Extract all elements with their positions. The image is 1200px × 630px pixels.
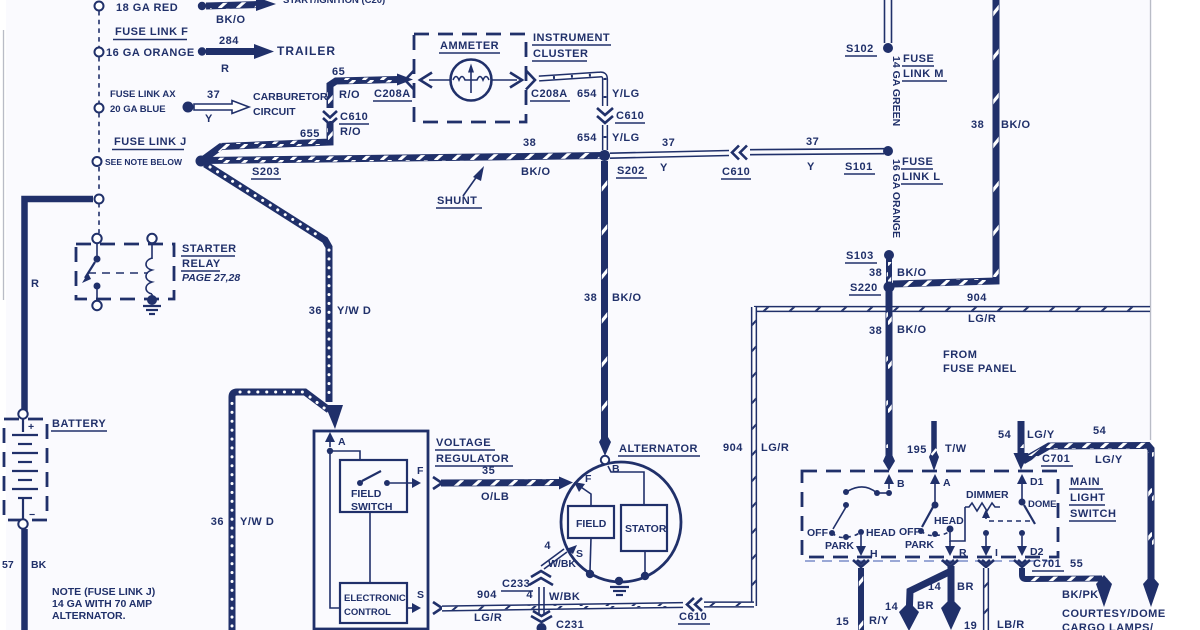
svg-text:65: 65 [332, 66, 345, 78]
wire: stator to case [644, 551, 646, 573]
alternator case circle [561, 462, 681, 582]
label S102 [845, 43, 877, 56]
label S220 [849, 282, 881, 295]
scan edge line left [3, 30, 5, 300]
node: R wire tap on bus [95, 195, 104, 204]
svg-text:FROM: FROM [943, 349, 977, 361]
svg-text:54: 54 [1093, 425, 1107, 437]
svg-text:Y/LG: Y/LG [612, 132, 640, 144]
node: stator case dot [641, 572, 649, 580]
switch section D: dome contact [1017, 489, 1057, 558]
wire: 904 LG/R horizontal upper (thin pair with ticks) [754, 306, 1150, 312]
svg-text:S: S [576, 548, 583, 560]
wire: 14 BR left fork (solid thick arrow) [899, 572, 949, 630]
connector C610 (Y) [732, 146, 747, 160]
node: field case dot [586, 570, 594, 578]
wire: 38 BK/O S103 to S220 (hatched) [886, 259, 892, 283]
node: splice to start/ignition [198, 2, 206, 10]
svg-text:195: 195 [907, 444, 927, 456]
wire: 904 LG/R vertical (thin pair with ticks) [751, 307, 757, 606]
wire: 4 W/BK from S terminal (thin pair) [541, 549, 567, 569]
node: 16 GA ORANGE terminal [95, 48, 104, 57]
node: fuse link bus (dashed) [98, 11, 100, 233]
svg-text:BK: BK [31, 559, 47, 571]
svg-text:35: 35 [482, 465, 495, 477]
ammeter left lead + connector [405, 71, 450, 90]
svg-text:BK/O: BK/O [612, 292, 642, 304]
label FROM FUSE PANEL [943, 349, 1017, 375]
svg-text:SHUNT: SHUNT [437, 195, 477, 207]
label SHUNT with arrow [436, 166, 484, 208]
svg-text:Y: Y [205, 113, 213, 125]
wire: 284 R to trailer (solid arrow) [206, 44, 274, 59]
scan edge line right [1150, 0, 1152, 440]
svg-text:S101: S101 [845, 161, 873, 173]
label C701 [1041, 453, 1073, 466]
svg-text:R: R [959, 547, 967, 559]
svg-text:37: 37 [207, 89, 220, 101]
wire: 35 O/LB to alternator F (hatched) [441, 477, 573, 490]
svg-text:37: 37 [662, 137, 675, 149]
svg-text:54: 54 [998, 429, 1012, 441]
node S202 [599, 150, 610, 161]
svg-text:INSTRUMENT: INSTRUMENT [533, 32, 610, 44]
wire: 38 BK/O shunt run S203 to S202 (hatched) [204, 156, 604, 161]
wire: 38 BK/O S220 down to main light switch B (hatched) [883, 291, 895, 471]
relay switch contacts [82, 243, 101, 301]
svg-text:4: 4 [544, 540, 551, 552]
connector C231 [531, 611, 552, 622]
svg-text:4: 4 [526, 589, 533, 601]
svg-text:LG/Y: LG/Y [1027, 429, 1055, 441]
svg-text:BK/O: BK/O [897, 267, 927, 279]
label ELECTRONIC CONTROL [344, 593, 406, 618]
svg-text:38: 38 [523, 137, 536, 149]
note text [52, 586, 155, 622]
svg-text:B: B [897, 478, 905, 490]
svg-text:14 GA WITH 70 AMP: 14 GA WITH 70 AMP [52, 598, 152, 610]
node: splice to trailer [198, 47, 206, 55]
node: relay switch bottom terminal [92, 301, 101, 310]
label C701 55 [1032, 558, 1083, 571]
svg-text:NOTE (FUSE LINK J): NOTE (FUSE LINK J) [52, 586, 155, 598]
connector C701 under D2 pin [1014, 560, 1030, 567]
wire: B internal lead to stator [608, 466, 644, 506]
svg-text:S: S [417, 589, 424, 601]
svg-text:654: 654 [577, 132, 597, 144]
svg-text:15: 15 [836, 616, 849, 628]
svg-text:S203: S203 [252, 166, 280, 178]
wire: 654 Y/LG from cluster to S202 (thin pair with ticks) [539, 74, 605, 106]
wire: 65 R/O up to ammeter (hatched) [330, 74, 413, 109]
svg-text:AMMETER: AMMETER [440, 40, 499, 52]
wire: 36 Y/W D dotted lower branch [232, 392, 329, 630]
label C233 [501, 578, 533, 591]
node S203 junction [196, 156, 207, 167]
svg-text:CLUSTER: CLUSTER [533, 48, 588, 60]
wire: BK battery negative (thick) [21, 529, 28, 630]
wire: 195 T/W to switch A (solid) [929, 421, 939, 471]
pin F (arrow) [574, 473, 592, 506]
label FUSE LINK J [112, 136, 187, 150]
battery BATTERY [4, 409, 47, 528]
wire: pair up from S102 to top edge [885, 0, 892, 43]
svg-text:MAIN: MAIN [1070, 476, 1100, 488]
svg-text:57: 57 [2, 559, 14, 571]
svg-text:DIMMER: DIMMER [966, 489, 1009, 501]
svg-text:904: 904 [477, 589, 497, 601]
svg-text:ELECTRONIC: ELECTRONIC [344, 593, 406, 604]
electronic control box [340, 583, 407, 623]
label S203 [251, 166, 281, 179]
svg-text:55: 55 [1070, 558, 1083, 570]
svg-text:37: 37 [806, 136, 819, 148]
node: A junction dot [327, 448, 333, 454]
svg-text:38: 38 [971, 119, 984, 131]
connector C701 under H pin [853, 560, 869, 567]
stator winding box [621, 505, 667, 551]
field winding box [568, 506, 614, 538]
svg-text:LB/R: LB/R [997, 619, 1025, 630]
node S220 [884, 282, 895, 293]
svg-text:D2: D2 [1030, 546, 1044, 558]
label MAIN LIGHT SWITCH [1069, 476, 1116, 521]
svg-text:OFF: OFF [807, 527, 829, 539]
connector: regulator S output [433, 602, 442, 614]
svg-text:C208A: C208A [531, 88, 568, 100]
svg-text:LG/R: LG/R [474, 612, 502, 624]
svg-text:PARK: PARK [905, 539, 934, 551]
svg-text:14: 14 [885, 601, 899, 613]
label AMMETER [439, 40, 500, 53]
svg-text:ALTERNATOR.: ALTERNATOR. [52, 610, 126, 622]
svg-text:16 GA ORANGE: 16 GA ORANGE [890, 159, 902, 238]
svg-text:14: 14 [928, 581, 942, 593]
node S103 [884, 250, 894, 260]
svg-text:A: A [943, 477, 951, 489]
svg-text:904: 904 [967, 292, 987, 304]
svg-text:S103: S103 [846, 250, 874, 262]
node: case ground dot [615, 577, 623, 585]
label FUSE LINK F [113, 26, 188, 40]
label COURTESY/DOME CARGO LAMPS [1062, 608, 1166, 630]
wire: A to field switch [330, 451, 360, 460]
label VOLTAGE REGULATOR [435, 437, 513, 466]
node: relay switch top terminal [92, 234, 101, 243]
svg-text:LINK M: LINK M [903, 68, 944, 80]
svg-text:COURTESY/DOME: COURTESY/DOME [1062, 608, 1166, 620]
wire: 655 R/O branch to ammeter (hatched) [204, 121, 330, 159]
voltage regulator box [314, 431, 428, 629]
svg-text:A: A [338, 436, 346, 448]
svg-text:BK/O: BK/O [897, 324, 927, 336]
connector: regulator F output [433, 477, 442, 489]
svg-text:654: 654 [577, 88, 597, 100]
wire: A to electronic control [330, 451, 340, 608]
light-blue echo of box bottom [805, 560, 1056, 562]
relay armature link (dashed) [88, 272, 148, 274]
label C208A (right) [530, 88, 570, 101]
svg-text:S202: S202 [617, 165, 645, 177]
svg-text:C610: C610 [340, 111, 368, 123]
wire: 37 Y C610 to S101 (thin pair) [750, 149, 884, 155]
svg-text:C610: C610 [722, 166, 750, 178]
svg-text:STATOR: STATOR [625, 523, 667, 535]
svg-text:C208A: C208A [374, 88, 411, 100]
svg-text:C701: C701 [1042, 453, 1070, 465]
svg-text:T/W: T/W [945, 443, 967, 455]
ground: starter relay [143, 306, 161, 314]
label C610 [339, 111, 369, 124]
label S202 [616, 165, 647, 178]
wire: 36 Y/W D dotted from S203 to regulator A [205, 164, 343, 429]
svg-text:S102: S102 [846, 43, 874, 55]
svg-text:HEAD: HEAD [866, 527, 896, 539]
svg-text:FUSE: FUSE [902, 156, 933, 168]
starter relay box (dashed) [76, 244, 174, 299]
switch section B: head/park/off contacts [807, 487, 896, 560]
wire: BK/O to start/ignition (hatched arrow) [206, 0, 385, 11]
label BATTERY [51, 418, 107, 431]
pin D1 (arrow up) [1017, 474, 1044, 489]
wire: 37 Y to carburetor circuit (open arrow) [194, 101, 249, 114]
svg-text:F: F [417, 465, 424, 477]
pin B (arrow up) [884, 474, 905, 490]
svg-text:Y: Y [660, 162, 668, 174]
svg-text:655: 655 [300, 128, 320, 140]
svg-text:FUSE: FUSE [903, 53, 934, 65]
svg-text:I: I [995, 547, 998, 559]
svg-text:SWITCH: SWITCH [351, 501, 392, 513]
wire: 38 BK/O S202 down to alternator B (hatched) [599, 161, 611, 456]
label STARTER RELAY PAGE 27,28 [181, 243, 240, 284]
svg-text:LINK L: LINK L [902, 171, 940, 183]
switch section A: head/park/off contacts [899, 489, 967, 559]
svg-text:284: 284 [219, 35, 239, 47]
svg-text:PARK: PARK [825, 540, 854, 552]
ground: alternator case [610, 587, 629, 595]
svg-text:LG/R: LG/R [968, 313, 996, 325]
wire: 54 LG/Y branch to courtesy lamps (hatched) [1023, 446, 1159, 608]
pin A (arrow up) [325, 432, 346, 448]
svg-text:R/O: R/O [340, 126, 361, 138]
svg-text:RELAY: RELAY [182, 258, 221, 270]
svg-text:SEE NOTE BELOW: SEE NOTE BELOW [105, 157, 183, 167]
svg-text:BR: BR [917, 600, 934, 612]
svg-text:36: 36 [211, 516, 224, 528]
pin S (arrow) [566, 545, 583, 560]
svg-text:Y/W D: Y/W D [337, 305, 371, 317]
svg-text:OFF: OFF [899, 526, 921, 538]
wire: field switch to electronic control [369, 512, 371, 583]
svg-text:LIGHT: LIGHT [1070, 492, 1106, 504]
wire: EC to S pin [407, 603, 421, 613]
svg-text:20 GA BLUE: 20 GA BLUE [110, 104, 166, 115]
svg-text:Y/LG: Y/LG [612, 88, 640, 100]
svg-text:C231: C231 [556, 619, 584, 630]
wire: 904 LG/R C610 to corner (thin pair with ticks) [704, 601, 754, 607]
node S101 [883, 146, 893, 156]
node: 20 GA BLUE terminal [95, 104, 104, 113]
svg-text:STARTER: STARTER [182, 243, 237, 255]
wire: 19 LB/R from I pin (thin pair with ticks) [983, 568, 989, 630]
svg-text:O/LB: O/LB [481, 491, 509, 503]
svg-text:+: + [28, 421, 34, 433]
label C610 [721, 166, 751, 179]
svg-text:W/BK: W/BK [548, 558, 576, 570]
label S101 [844, 161, 875, 174]
svg-text:DOME: DOME [1028, 499, 1057, 510]
ammeter right lead + connector [492, 71, 535, 90]
svg-text:W/BK: W/BK [549, 591, 580, 603]
label FUSE LINK L [901, 156, 943, 184]
svg-text:BK/PK: BK/PK [1062, 589, 1099, 601]
svg-text:VOLTAGE: VOLTAGE [436, 437, 491, 449]
svg-text:H: H [870, 548, 878, 560]
svg-text:R/Y: R/Y [869, 615, 889, 627]
field switch contacts [357, 471, 421, 488]
label S103 [845, 250, 877, 263]
label INSTRUMENT CLUSTER [532, 32, 611, 61]
svg-text:Y: Y [807, 161, 815, 173]
svg-text:LG/Y: LG/Y [1095, 454, 1123, 466]
wire: 54 LG/Y to switch D1 (hatched) [1014, 421, 1029, 470]
label C610 [615, 110, 645, 123]
wire: 37 Y S202 to C610 (thin pair) [610, 151, 729, 159]
svg-text:Y/W D: Y/W D [240, 516, 274, 528]
dimmer rheostat [965, 489, 1009, 511]
main light switch box (dashed) [802, 471, 1058, 557]
connector C233 [529, 571, 553, 585]
svg-text:CARGO LAMPS/: CARGO LAMPS/ [1062, 622, 1154, 630]
connector C610 (R/O) [323, 111, 337, 125]
svg-text:904: 904 [723, 442, 743, 454]
wire: 4 W/BK to C231 (thin pair) [539, 587, 544, 614]
svg-text:FUSE LINK F: FUSE LINK F [115, 26, 188, 38]
svg-text:START/IGNITION (C20): START/IGNITION (C20) [283, 0, 385, 6]
svg-text:D1: D1 [1030, 476, 1044, 488]
wire: 14 BR right fork (solid thick arrow) [941, 566, 961, 630]
svg-text:R/O: R/O [339, 89, 360, 101]
wire: 904 LG/R regulator S to C610 (thin pair with ticks) [442, 605, 683, 609]
node: relay coil top terminal [147, 234, 156, 243]
node: 18 GA RED terminal [95, 2, 104, 11]
svg-text:ALTERNATOR: ALTERNATOR [619, 443, 698, 455]
node: B terminal [601, 456, 609, 464]
svg-text:F: F [585, 473, 592, 485]
svg-text:CIRCUIT: CIRCUIT [253, 106, 296, 118]
svg-text:BATTERY: BATTERY [52, 418, 106, 430]
connector C701 under I pin [978, 560, 994, 567]
svg-text:38: 38 [869, 325, 882, 337]
svg-text:38: 38 [584, 292, 597, 304]
wire: 654 Y/LG below connector [602, 125, 608, 150]
svg-text:18 GA RED: 18 GA RED [116, 2, 178, 14]
node S102 [883, 43, 893, 53]
svg-text:TRAILER: TRAILER [277, 44, 336, 58]
svg-text:SWITCH: SWITCH [1070, 508, 1116, 520]
svg-text:FUSE PANEL: FUSE PANEL [943, 363, 1017, 375]
svg-text:R: R [31, 278, 39, 290]
label C610 [678, 611, 710, 624]
svg-text:19: 19 [964, 620, 977, 630]
svg-text:S220: S220 [850, 282, 878, 294]
relay coil [146, 243, 157, 305]
svg-text:FUSE LINK J: FUSE LINK J [114, 136, 187, 148]
svg-text:B: B [612, 463, 620, 475]
instrument cluster box (dashed) [414, 34, 526, 122]
svg-text:BK/O: BK/O [216, 14, 246, 26]
svg-text:−: − [29, 509, 35, 521]
connector C701 under R pin [942, 560, 958, 567]
svg-text:BR: BR [957, 581, 974, 593]
wire: 15 R/Y from H pin (hatched medium) [858, 568, 864, 630]
svg-text:FIELD: FIELD [351, 488, 382, 500]
svg-text:CONTROL: CONTROL [344, 607, 391, 618]
wire: 38 BK/O right vertical from top to S220 (hatched) [893, 0, 996, 284]
wire: 55 BK/PK from D2 to courtesy lamps (hatched) [1022, 568, 1112, 607]
field switch box [340, 460, 407, 512]
connector C610 (LG/R) [687, 598, 702, 611]
svg-text:FIELD: FIELD [576, 518, 607, 530]
svg-text:FUSE LINK AX: FUSE LINK AX [110, 89, 176, 100]
label FIELD SWITCH [351, 488, 392, 513]
label C208A (left) [373, 88, 412, 101]
wire: R battery feed (thick) [25, 199, 94, 411]
svg-text:REGULATOR: REGULATOR [436, 453, 509, 465]
svg-text:C701: C701 [1033, 558, 1061, 570]
node: see-note terminal [93, 157, 102, 166]
svg-text:PAGE 27,28: PAGE 27,28 [182, 272, 240, 284]
dimmer wiper arrow [981, 509, 1030, 559]
svg-text:14 GA GREEN: 14 GA GREEN [890, 56, 902, 126]
label FUSE LINK M [902, 53, 947, 81]
svg-text:36: 36 [309, 305, 322, 317]
svg-text:C610: C610 [679, 611, 707, 623]
pin A (arrow up) [930, 474, 951, 489]
svg-text:BK/O: BK/O [521, 166, 551, 178]
node: C231 end dot [537, 623, 547, 630]
svg-text:HEAD: HEAD [934, 515, 964, 527]
node: splice to carburetor [183, 102, 194, 113]
connector C610 (Y/LG) [597, 108, 613, 123]
svg-text:BK/O: BK/O [1001, 119, 1031, 131]
ammeter meter M1 [451, 60, 492, 101]
svg-text:16 GA ORANGE: 16 GA ORANGE [106, 47, 195, 59]
label CARBURETOR CIRCUIT [253, 91, 328, 118]
label ALTERNATOR [618, 443, 700, 456]
wire: field to case [590, 538, 591, 571]
svg-text:C610: C610 [616, 110, 644, 122]
svg-text:CARBURETOR: CARBURETOR [253, 91, 328, 103]
svg-text:LG/R: LG/R [761, 442, 789, 454]
svg-text:R: R [221, 63, 229, 75]
svg-text:38: 38 [869, 267, 882, 279]
